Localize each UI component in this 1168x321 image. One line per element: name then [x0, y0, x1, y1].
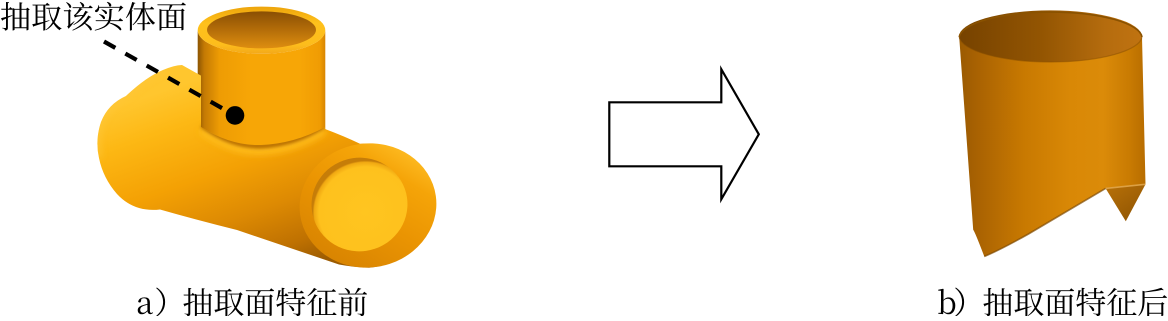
- caption b: b）抽取面特征后: [938, 288, 1167, 317]
- caption a: a）抽取面特征前: [138, 288, 367, 317]
- T-pipe fitting (before): [97, 7, 444, 277]
- leader dashed line: [104, 42, 228, 112]
- cut edge highlight above fang: [1106, 184, 1146, 188]
- vertical cylinder body: [198, 30, 326, 150]
- top opening hole: [207, 11, 316, 48]
- top rim edge line: [959, 12, 1142, 37]
- block arrow: [609, 69, 759, 199]
- pipe right end face rim: [292, 135, 445, 277]
- pipe right end opening: [305, 151, 413, 257]
- top rim ring: [198, 7, 326, 54]
- front surface of shell: [959, 37, 1145, 257]
- bottom cut edge line: [984, 188, 1105, 256]
- extracted cylindrical face (after): [959, 10, 1146, 256]
- junction crease shadow on pipe: [97, 70, 324, 158]
- leader label text: 抽取该实体面: [1, 2, 186, 31]
- horizontal pipe body: [97, 65, 433, 268]
- fang: inner surface visible at cut: [1106, 184, 1146, 221]
- leader dot: [226, 106, 245, 125]
- inner surface seen through top opening: [959, 10, 1142, 62]
- front rim edge line: [959, 37, 1142, 62]
